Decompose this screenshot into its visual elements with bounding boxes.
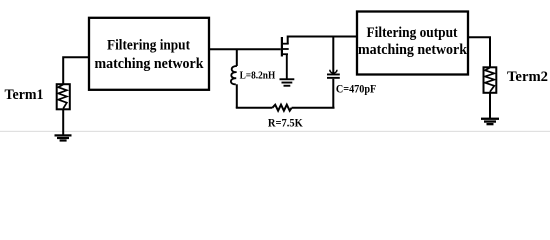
block: Filtering input matching network: [89, 18, 209, 90]
svg-text:Term1: Term1: [5, 86, 44, 103]
svg-text:C=470pF: C=470pF: [336, 84, 376, 96]
svg-text:Filtering input: Filtering input: [107, 36, 190, 53]
svg-text:Term2: Term2: [507, 68, 548, 85]
wire drain riser: [288, 37, 357, 45]
ground under Term1: [55, 134, 72, 141]
svg-text:R=7.5K: R=7.5K: [268, 117, 303, 129]
port Term2 (box with zigzag): [484, 67, 497, 93]
capacitor C1 cup mark: [330, 70, 337, 73]
transistor Q1 gate bar: [281, 37, 283, 57]
wire Term1 to input box: [63, 57, 89, 84]
ground under transistor: [280, 78, 295, 86]
port Term1 (box with zigzag): [57, 84, 70, 109]
svg-text:matching network: matching network: [95, 55, 205, 72]
wire input box to transistor gate: [209, 48, 281, 50]
capacitor C1 top lead: [332, 37, 334, 74]
wire Term1 to ground: [62, 109, 64, 135]
faint horizontal rule artifact: [0, 131, 550, 132]
wire inductor top lead (node A junction): [236, 49, 238, 66]
transistor Q1 drain tine: [282, 43, 289, 45]
resistor R1 zigzag: [272, 105, 291, 111]
wire output box to Term2: [468, 37, 490, 67]
wire inductor bottom lead: [236, 84, 238, 108]
wire bottom loop right segment: [292, 107, 335, 109]
capacitor C1 bottom lead: [332, 79, 334, 108]
wire Term2 to ground: [489, 93, 491, 119]
svg-text:L=8.2nH: L=8.2nH: [240, 70, 276, 82]
capacitor C1 plates: [327, 74, 340, 76]
wire bottom loop left segment: [236, 107, 272, 109]
transistor Q1 body tine: [282, 48, 289, 50]
block: Filtering output matching network: [357, 12, 468, 75]
wire source to ground: [286, 55, 288, 80]
transistor Q1 source tine: [282, 53, 288, 55]
svg-text:Filtering output: Filtering output: [367, 24, 458, 41]
inductor L1 coil: [231, 66, 237, 84]
ground under Term2: [481, 118, 499, 126]
svg-text:matching network: matching network: [358, 41, 468, 58]
